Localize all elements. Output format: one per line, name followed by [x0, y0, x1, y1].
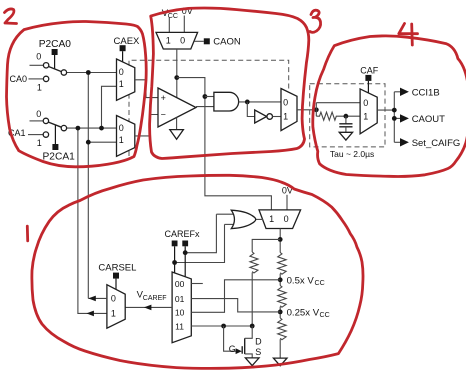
control CARSEL square	[113, 273, 119, 290]
label CAOUT	[412, 114, 445, 125]
wire polarity mux out	[297, 109, 316, 111]
wire branch to left resistor	[252, 239, 280, 252]
annotation loop 1	[32, 175, 363, 368]
svg-text:CAEX: CAEX	[114, 36, 141, 47]
arrow CARSEL 0	[88, 296, 96, 302]
label D	[255, 337, 262, 347]
wire 0V stem lower	[286, 195, 288, 210]
wire VCC stem	[168, 18, 170, 33]
arrow CARSEL 1	[86, 311, 94, 317]
label Set_CAIFG	[412, 138, 461, 149]
label CAON	[213, 37, 241, 48]
svg-text:0: 0	[119, 67, 124, 77]
mux CARSEL	[107, 285, 125, 329]
node CA1 junction B	[99, 126, 104, 131]
node CAREF select junction B	[172, 260, 177, 265]
wire AND upper input stub	[205, 96, 214, 98]
control P2CA0 square	[52, 49, 58, 69]
svg-text:1: 1	[119, 135, 124, 145]
ground below comparator	[170, 117, 184, 139]
node CA0 junction	[86, 70, 91, 75]
svg-text:0: 0	[284, 214, 289, 224]
label VCC	[162, 8, 178, 20]
svg-text:CAON: CAON	[213, 37, 241, 48]
wire mux2 out to comparator minus	[135, 115, 158, 136]
svg-text:CAOUT: CAOUT	[412, 114, 445, 125]
node output junction B	[392, 116, 397, 121]
label G	[229, 344, 236, 354]
control CAON tap	[194, 38, 210, 44]
wire output distribution vertical	[394, 92, 400, 143]
wire AND output	[239, 101, 281, 103]
resistor ladder left	[250, 252, 258, 326]
svg-text:S: S	[255, 347, 261, 357]
label VCAREF	[137, 290, 167, 302]
mux CAEX lower	[117, 116, 135, 157]
label 0V lower	[282, 186, 293, 196]
svg-text:P2CA0: P2CA0	[39, 39, 72, 50]
dashed box comparator core	[129, 60, 289, 156]
svg-text:Tau ~ 2.0µs: Tau ~ 2.0µs	[330, 149, 374, 159]
svg-text:1: 1	[283, 112, 288, 122]
wire 0V mux out to ladder	[279, 229, 281, 253]
resistor ladder mid right	[278, 286, 286, 319]
wire CA1 vertical down to CARSEL out 1	[78, 128, 107, 313]
svg-text:0: 0	[283, 98, 288, 108]
wire mux1 out to comparator plus	[135, 80, 158, 98]
wire comparator output	[196, 106, 214, 108]
wire CA1 common to mux2	[67, 127, 117, 129]
label 0V top	[182, 6, 193, 16]
dashed box filter	[310, 84, 385, 147]
svg-text:00: 00	[175, 279, 185, 289]
ground below ladder	[273, 358, 287, 366]
op-amp comparator	[158, 88, 196, 127]
svg-text:0: 0	[363, 98, 368, 108]
node filter input junction	[314, 107, 319, 112]
wire direct path to CAF mux 0	[316, 103, 360, 117]
svg-text:1: 1	[363, 111, 368, 121]
svg-text:1: 1	[119, 79, 124, 89]
svg-text:0: 0	[36, 109, 41, 119]
control CAEX square	[120, 45, 126, 62]
mux output polarity select	[281, 89, 297, 131]
node AND output junction	[245, 100, 250, 105]
svg-text:0: 0	[119, 123, 124, 133]
node 11 gate junction	[221, 324, 226, 329]
ground below transistor	[245, 358, 259, 366]
annotation digit 1	[26, 226, 29, 241]
svg-text:1: 1	[37, 83, 42, 93]
arrow Set_CAIFG	[400, 138, 409, 146]
wire OR input lower from CAREF1	[175, 224, 225, 262]
wire to inverter	[247, 102, 254, 117]
ground below capacitor	[339, 132, 352, 140]
svg-text:G: G	[229, 344, 236, 354]
svg-text:0.25x V: 0.25x V	[287, 308, 320, 319]
mux CAEX upper	[117, 59, 135, 100]
node output junction A	[392, 108, 397, 113]
AND gate	[214, 92, 239, 111]
svg-text:1: 1	[166, 35, 171, 45]
switch CA1	[8, 109, 67, 148]
wire CAF mux out	[377, 109, 394, 111]
node CA1 junction A	[76, 126, 81, 131]
wire VCAREF out	[125, 306, 172, 308]
svg-text:CAREFx: CAREFx	[165, 229, 201, 239]
label 0.5x VCC	[287, 276, 325, 288]
transistor Q1	[242, 326, 252, 358]
svg-text:CCI1B: CCI1B	[412, 87, 440, 98]
arrow CCI1B	[400, 88, 409, 96]
wire OR input upper from CAREF0	[185, 214, 216, 253]
svg-text:0: 0	[180, 35, 185, 45]
annotation digit 4	[399, 24, 418, 46]
svg-text:1: 1	[37, 138, 42, 148]
svg-text:CA0: CA0	[10, 74, 28, 84]
wire input 10 to 0.5 tap	[191, 280, 280, 313]
annotation loop 3	[150, 8, 309, 159]
node power junction	[174, 75, 179, 80]
wire CAON enable run to AND and 0V mux	[177, 78, 272, 210]
mux CAON power select	[156, 32, 198, 49]
wire power to comparator	[176, 49, 178, 98]
svg-text:0: 0	[111, 294, 116, 304]
svg-text:1: 1	[111, 309, 116, 319]
annotation loop 4	[313, 36, 466, 177]
label P2CA1	[43, 152, 76, 163]
resistor ladder bottom right	[278, 318, 286, 358]
resistor ladder top right	[278, 253, 286, 286]
OR gate	[216, 210, 263, 228]
inverter buffer	[255, 110, 281, 123]
arrow CAOUT	[400, 114, 409, 122]
svg-text:0: 0	[36, 52, 41, 62]
svg-text:CC: CC	[315, 279, 325, 287]
label CAREFx	[165, 229, 201, 239]
mux reference 0V select	[259, 210, 301, 229]
svg-text:11: 11	[175, 321, 184, 331]
arrow VCAREF	[144, 305, 152, 311]
control P2CA1 square	[52, 125, 58, 150]
label 0.25x VCC	[287, 308, 330, 320]
wire input 11 to transistor	[191, 325, 252, 327]
svg-text:CARSEL: CARSEL	[98, 262, 136, 273]
annotation loop 2	[7, 21, 147, 166]
wire CA1 up to mux1 input 1	[102, 86, 117, 128]
label CAF	[360, 65, 379, 75]
svg-text:Set_CAIFG: Set_CAIFG	[412, 138, 461, 149]
wire CA0 vertical down to CARSEL out 0	[87, 73, 89, 299]
resistor filter R	[316, 112, 360, 120]
svg-text:10: 10	[175, 308, 185, 318]
svg-text:−: −	[161, 109, 166, 119]
label P2CA0	[39, 39, 72, 50]
mux CAREF source select	[172, 272, 191, 343]
node CA0/mux2 junction	[86, 140, 91, 145]
wire input 00 stub	[191, 283, 203, 285]
label CARSEL	[98, 262, 136, 273]
mux CAF filter select	[360, 89, 377, 134]
svg-text:CAREF: CAREF	[143, 295, 167, 302]
wire 0V stem	[183, 16, 185, 33]
label CAEX	[114, 36, 141, 47]
node ladder top junction	[278, 237, 283, 242]
label CCI1B	[412, 87, 440, 98]
arrow gate	[236, 348, 242, 354]
control CAREFx squares	[172, 241, 188, 277]
node CAREF select junction A	[183, 250, 188, 255]
wire CARSEL out 0	[88, 297, 107, 299]
svg-text:1: 1	[269, 214, 274, 224]
control CAF square	[365, 75, 371, 93]
node tap 0.5 VCC	[278, 277, 283, 282]
svg-text:+: +	[161, 93, 166, 103]
label Tau	[330, 149, 374, 159]
svg-text:CC: CC	[320, 311, 330, 319]
svg-text:0.5x V: 0.5x V	[287, 276, 315, 287]
svg-text:D: D	[255, 337, 262, 347]
svg-text:P2CA1: P2CA1	[43, 152, 76, 163]
annotation digit 2	[5, 9, 17, 24]
node 11 drain junction	[250, 324, 255, 329]
wire input 01 to 0.25 tap	[191, 299, 280, 312]
wire gate run	[224, 326, 237, 351]
switch CA0	[10, 52, 67, 93]
annotation digit 3	[310, 10, 321, 32]
wire CA0 common to mux1	[67, 72, 117, 74]
wire CA0 branch to mux2 input 1	[88, 141, 116, 143]
node AND enable junction	[203, 94, 208, 99]
capacitor filter C	[339, 116, 352, 132]
node filter RC junction	[344, 114, 349, 119]
label S	[255, 347, 261, 357]
node tap 0.25 VCC	[278, 310, 283, 315]
svg-text:CAF: CAF	[360, 65, 379, 75]
svg-text:01: 01	[175, 294, 185, 304]
